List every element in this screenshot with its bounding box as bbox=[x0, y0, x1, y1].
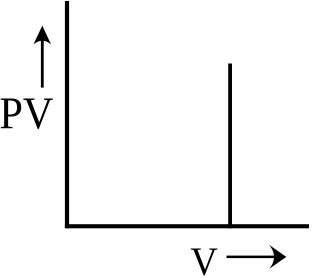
svg-text:PV: PV bbox=[0, 89, 54, 138]
V label bbox=[190, 240, 217, 278]
right arrow head bbox=[269, 245, 286, 269]
y-axis (vertical axis line) bbox=[65, 1, 69, 228]
vertical line (spike in plot area) bbox=[228, 64, 232, 229]
up arrow head bbox=[34, 26, 52, 45]
x-axis (horizontal axis line) bbox=[65, 224, 309, 228]
svg-text:V: V bbox=[190, 240, 217, 278]
right arrow shaft bbox=[227, 256, 279, 259]
PV label bbox=[0, 89, 54, 138]
up arrow shaft bbox=[41, 38, 44, 88]
